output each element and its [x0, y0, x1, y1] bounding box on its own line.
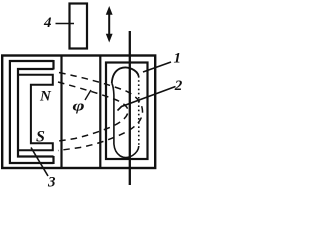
magnet yoke outer contour [10, 61, 54, 163]
leader line for 4 [56, 23, 75, 25]
svg-text:3: 3 [47, 174, 56, 188]
partition right wall [99, 56, 101, 169]
magnet yoke bottom arm tip cap [52, 156, 54, 164]
svg-text:S: S [36, 129, 45, 146]
pole piece bracket 3 [18, 75, 53, 150]
svg-text:N: N [39, 88, 52, 104]
oval bottom arc [114, 144, 139, 158]
magnet yoke inner contour [18, 69, 54, 157]
oval left side [112, 83, 114, 144]
leader line for 2 [118, 87, 176, 111]
magnet yoke top arm tip cap [52, 60, 54, 70]
double headed motion arrow [106, 6, 113, 43]
housing box 1 [2, 56, 155, 169]
armature coil oval 2 [112, 67, 139, 83]
leader line for 1 [143, 62, 171, 72]
svg-text:4: 4 [43, 15, 52, 31]
leader line for 3 [31, 148, 48, 177]
svg-text:φ: φ [73, 97, 85, 113]
flux line outer loop (dashed) [58, 73, 143, 151]
phi upstroke dash [85, 90, 91, 100]
axis shaft vertical line [129, 31, 131, 185]
inner frame box (right compartment) [106, 63, 148, 160]
oval right side dotted [138, 76, 140, 146]
partition left wall [60, 56, 62, 169]
svg-text:1: 1 [174, 51, 182, 67]
flux line inner loop (dashed) [58, 82, 129, 141]
rod 4 rectangle [70, 4, 88, 49]
